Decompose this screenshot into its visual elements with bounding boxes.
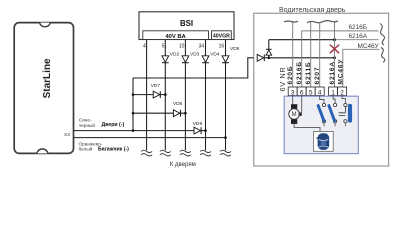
label Водительская дверь bbox=[279, 7, 346, 14]
svg-text:6216А: 6216А bbox=[349, 33, 368, 40]
wire column 6216А pin1 with cut bbox=[334, 22, 336, 87]
StarLine logo text bbox=[42, 58, 53, 98]
svg-text:4: 4 bbox=[318, 89, 322, 96]
switch levers blue bbox=[318, 106, 334, 121]
switch contacts circles bbox=[322, 103, 347, 126]
wire exit squiggle bottom bbox=[381, 48, 385, 63]
svg-text:6211Б: 6211Б bbox=[305, 61, 312, 84]
rotated label 6216А bbox=[329, 61, 336, 84]
svg-text:16: 16 bbox=[219, 43, 225, 49]
diode VD1 bbox=[257, 54, 269, 61]
svg-text:белый: белый bbox=[79, 145, 93, 151]
rotated label 6207 bbox=[314, 67, 321, 85]
connector 40V BA bbox=[143, 31, 209, 40]
svg-text:VD5: VD5 bbox=[230, 46, 240, 52]
motor lead pin3 bbox=[292, 96, 294, 105]
rotated label 6211Б bbox=[305, 61, 312, 84]
pin 34 label bbox=[199, 43, 205, 49]
diode VD2 with column c2 bbox=[162, 40, 180, 151]
svg-text:6216А: 6216А bbox=[329, 61, 336, 84]
door latch icon box bbox=[313, 132, 333, 152]
connector 6V NR pin boxes bbox=[288, 87, 346, 96]
wire pin4 column c1 bbox=[146, 40, 148, 151]
label К дверям bbox=[170, 161, 196, 168]
svg-text:BSI: BSI bbox=[180, 19, 193, 28]
pin 16 label bbox=[219, 43, 225, 49]
pin 4 label bbox=[143, 43, 146, 49]
wire 6216A alarm side bbox=[269, 39, 335, 41]
switch lead pin1 bbox=[333, 96, 335, 104]
svg-text:Водительская дверь: Водительская дверь bbox=[279, 7, 346, 14]
diode VD7 bbox=[133, 83, 165, 98]
diode VD8 bbox=[133, 101, 185, 117]
harness wavy lines bbox=[284, 21, 338, 23]
svg-text:МС46У: МС46У bbox=[338, 59, 345, 85]
svg-text:5: 5 bbox=[162, 43, 165, 49]
red cut mark X bbox=[330, 45, 338, 53]
diode VD3 with column c3 bbox=[182, 40, 200, 151]
StarLine alarm unit body bbox=[14, 23, 73, 154]
motor M bbox=[289, 104, 302, 124]
label Оранжево-белый bbox=[79, 141, 103, 151]
svg-text:VD2: VD2 bbox=[170, 51, 180, 57]
connector 40VGR bbox=[212, 31, 232, 40]
svg-text:10: 10 bbox=[179, 43, 185, 49]
wire left vertical bus c0 bbox=[132, 78, 134, 131]
svg-text:40V BA: 40V BA bbox=[165, 34, 186, 40]
svg-text:6207: 6207 bbox=[314, 67, 321, 85]
svg-text:4: 4 bbox=[143, 43, 146, 49]
diode VD6 vertical bbox=[266, 40, 272, 58]
car icon bbox=[316, 133, 329, 150]
wire top bus to driver door bbox=[133, 58, 257, 78]
wire MC46Y factory bbox=[343, 49, 380, 87]
svg-text:40VGR: 40VGR bbox=[213, 34, 230, 40]
wire exit squiggle top bbox=[380, 24, 384, 46]
switch lead pin4 bbox=[320, 96, 324, 104]
wire column 6207 pin4 bbox=[319, 22, 321, 87]
rotated label 620Б bbox=[287, 66, 294, 85]
svg-text:X3: X3 bbox=[64, 132, 70, 138]
junction dots driver door bbox=[268, 38, 336, 59]
label 6216А bbox=[349, 33, 368, 40]
BSI box bbox=[139, 12, 234, 40]
svg-text:3: 3 bbox=[291, 89, 295, 96]
driver door box Водительская дверь bbox=[254, 13, 389, 166]
diode VD9 bbox=[193, 121, 206, 134]
junction dots middle bbox=[132, 93, 227, 139]
svg-text:К дверям: К дверям bbox=[170, 161, 196, 168]
svg-text:2: 2 bbox=[340, 89, 344, 96]
svg-text:6: 6 bbox=[300, 89, 304, 96]
svg-text:6V NR: 6V NR bbox=[278, 67, 287, 92]
label 6216Б bbox=[349, 24, 367, 31]
wire 6216B factory bbox=[302, 30, 379, 32]
lock module blue box bbox=[284, 96, 358, 153]
wire VD1 output to cut point bbox=[269, 57, 335, 59]
connector X3 label bbox=[64, 132, 70, 138]
svg-text:Багажник (-): Багажник (-) bbox=[98, 147, 129, 153]
svg-text:6216Б: 6216Б bbox=[349, 24, 367, 31]
motor lead pin6 bbox=[301, 96, 303, 113]
svg-text:VD8: VD8 bbox=[173, 101, 183, 107]
switch fork contact bbox=[339, 107, 346, 116]
diode VD5 with column c5 bbox=[222, 40, 240, 151]
rotated label 6216Б bbox=[296, 61, 303, 84]
svg-text:M: M bbox=[292, 112, 297, 118]
wire break squiggles К дверям bbox=[141, 150, 231, 156]
label Сине-черный bbox=[79, 118, 96, 129]
wire Багажник (-) from StarLine (row2) bbox=[74, 137, 226, 139]
svg-text:VD9: VD9 bbox=[193, 121, 203, 127]
wire Двери (-) from StarLine (row1) bbox=[74, 130, 195, 132]
wire column 620Б pin3 bbox=[292, 22, 294, 87]
pin 5 label bbox=[162, 43, 165, 49]
svg-text:620Б: 620Б bbox=[287, 66, 294, 85]
svg-text:Двери (-): Двери (-) bbox=[102, 122, 125, 128]
rotated label МС46У bbox=[338, 59, 345, 85]
svg-text:VD3: VD3 bbox=[190, 51, 200, 57]
diode VD4 with column c4 bbox=[202, 40, 220, 151]
wire column 6216Б pin6 bbox=[301, 31, 303, 87]
switch lead pin2 bbox=[342, 96, 345, 104]
lock knob blue bar bbox=[348, 104, 352, 123]
label Багажник (-) bbox=[98, 147, 129, 153]
svg-text:VD4: VD4 bbox=[210, 51, 220, 57]
svg-text:VD7: VD7 bbox=[151, 83, 161, 89]
svg-text:черный: черный bbox=[79, 122, 96, 128]
pin 10 label bbox=[179, 43, 185, 49]
rotated label 6V NR bbox=[278, 67, 287, 92]
label МС46У bbox=[358, 43, 380, 50]
svg-text:6216Б: 6216Б bbox=[296, 61, 303, 84]
label Двери (-) bbox=[102, 122, 125, 128]
svg-text:Сине-: Сине- bbox=[79, 118, 92, 123]
svg-text:5: 5 bbox=[309, 89, 313, 96]
svg-text:1: 1 bbox=[331, 89, 335, 96]
svg-text:StarLine: StarLine bbox=[42, 58, 53, 98]
svg-text:34: 34 bbox=[199, 43, 205, 49]
motor bottom wire to latch bbox=[294, 124, 320, 132]
wire column 6211Б pin5 bbox=[310, 22, 312, 87]
wire 6216A factory side bbox=[335, 39, 379, 41]
